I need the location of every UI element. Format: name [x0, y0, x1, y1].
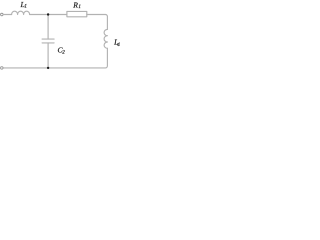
label R1 — [72, 0, 81, 10]
terminal bottom-left — [1, 67, 4, 70]
label C2 — [58, 45, 66, 55]
svg-text:R: R — [72, 0, 78, 9]
inductor L4 — [104, 29, 107, 48]
svg-text:4: 4 — [117, 43, 120, 48]
node junction top — [47, 13, 49, 15]
svg-text:2: 2 — [62, 51, 65, 56]
terminal top-left — [1, 13, 4, 16]
wire capacitor stem bottom — [47, 43, 49, 68]
wire R1 to right corner — [87, 14, 108, 29]
node junction bottom — [47, 67, 49, 69]
svg-text:1: 1 — [78, 5, 81, 10]
wire top-left lead — [3, 14, 11, 16]
capacitor C2 bottom plate — [42, 42, 54, 44]
label L1 — [20, 0, 27, 10]
resistor R1 — [67, 11, 87, 16]
wire L1 to R1 — [30, 14, 67, 16]
wire right side down — [3, 48, 107, 68]
label L4 — [113, 38, 120, 48]
capacitor C2 top plate — [42, 38, 54, 40]
svg-text:1: 1 — [24, 5, 27, 10]
inductor L1 — [12, 11, 30, 14]
wire capacitor stem top — [47, 15, 49, 40]
